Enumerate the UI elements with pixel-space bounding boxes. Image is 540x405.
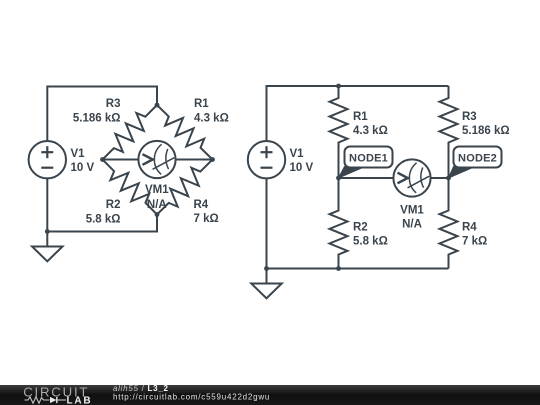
resistor R4 (left circuit, bottom-right arm) [157,160,213,215]
wire node1 to voltmeter (right circuit) [339,177,394,179]
wire V1 bottom (right circuit) [266,178,268,268]
voltmeter VM1 (right circuit) [393,159,430,196]
svg-text:5.8 kΩ: 5.8 kΩ [353,236,388,248]
svg-text:R3: R3 [106,98,121,110]
junction dot bridge left node (left circuit) [100,157,105,162]
resistor R4 (right circuit) [440,178,458,269]
svg-text:N/A: N/A [402,218,422,230]
svg-text:VM1: VM1 [145,184,169,196]
svg-text:10 V: 10 V [71,162,95,174]
junction dot bridge bottom node (left circuit) [155,212,160,217]
svg-text:R4: R4 [194,199,209,211]
junction dot bridge top node (left circuit) [155,103,160,108]
resistor R3 (right circuit) [440,86,458,178]
svg-text:R1: R1 [353,111,368,123]
junction dot at ground node (left circuit) [45,229,50,234]
svg-text:R3: R3 [462,111,477,123]
svg-text:N/A: N/A [147,199,167,211]
svg-text:R2: R2 [353,221,368,233]
svg-text:R2: R2 [106,199,121,211]
svg-text:5.186 kΩ: 5.186 kΩ [462,125,510,137]
junction dot at ground node (right circuit) [264,266,269,271]
node flag NODE1 [339,147,393,179]
wire bridge left node to voltmeter (left circuit) [103,159,139,161]
svg-text:5.186 kΩ: 5.186 kΩ [73,112,121,124]
resistor R2 (left circuit, bottom-left arm) [103,160,158,215]
svg-text:5.8 kΩ: 5.8 kΩ [86,213,121,225]
svg-text:http://circuitlab.com/c559u422: http://circuitlab.com/c559u422d2gwu [113,392,270,401]
wire voltmeter to node2 (right circuit) [431,177,449,179]
voltage source V1 (left circuit) [29,141,66,178]
resistor R1 (right circuit) [330,86,348,178]
svg-text:NODE2: NODE2 [458,153,497,165]
junction dot bridge right node (left circuit) [210,157,215,162]
junction dot node NODE1 (right circuit) [336,176,341,181]
svg-text:7 kΩ: 7 kΩ [194,213,219,225]
junction dot top of left branch (right circuit) [336,84,341,89]
svg-text:NODE1: NODE1 [349,153,388,165]
svg-text:V1: V1 [290,148,305,160]
wire V1 top to bridge top node (left circuit) [47,87,157,142]
wire V1 top rail (right circuit) [267,86,449,141]
wire bottom rail (left circuit) [47,215,157,232]
wire bottom rail (right circuit) [267,268,449,270]
voltmeter VM1 (left circuit) [138,141,175,178]
footer bar [0,385,540,405]
resistor R2 (right circuit) [330,178,348,269]
svg-text:7 kΩ: 7 kΩ [462,236,487,248]
voltage source V1 (right circuit) [248,141,285,178]
junction dot node NODE2 (right circuit) [446,176,451,181]
resistor R3 (left circuit, top-left arm) [103,105,158,160]
svg-text:R1: R1 [194,98,209,110]
wire voltmeter to bridge right node (left circuit) [176,159,213,161]
svg-text:VM1: VM1 [400,205,424,217]
svg-text:4.3 kΩ: 4.3 kΩ [353,125,388,137]
CircuitLab logo resistor-diode glyph [25,397,67,403]
svg-text:10 V: 10 V [290,162,314,174]
wire V1 bottom to ground rail (left circuit) [46,178,48,231]
junction dot bottom of left branch (right circuit) [336,266,341,271]
node flag NODE2 [449,147,502,179]
ground (right circuit) [251,269,281,299]
svg-text:LAB: LAB [67,395,93,405]
ground (left circuit) [32,232,62,262]
svg-text:4.3 kΩ: 4.3 kΩ [194,112,229,124]
svg-text:R4: R4 [462,221,477,233]
resistor R1 (left circuit, top-right arm) [157,105,213,160]
svg-text:V1: V1 [71,148,86,160]
